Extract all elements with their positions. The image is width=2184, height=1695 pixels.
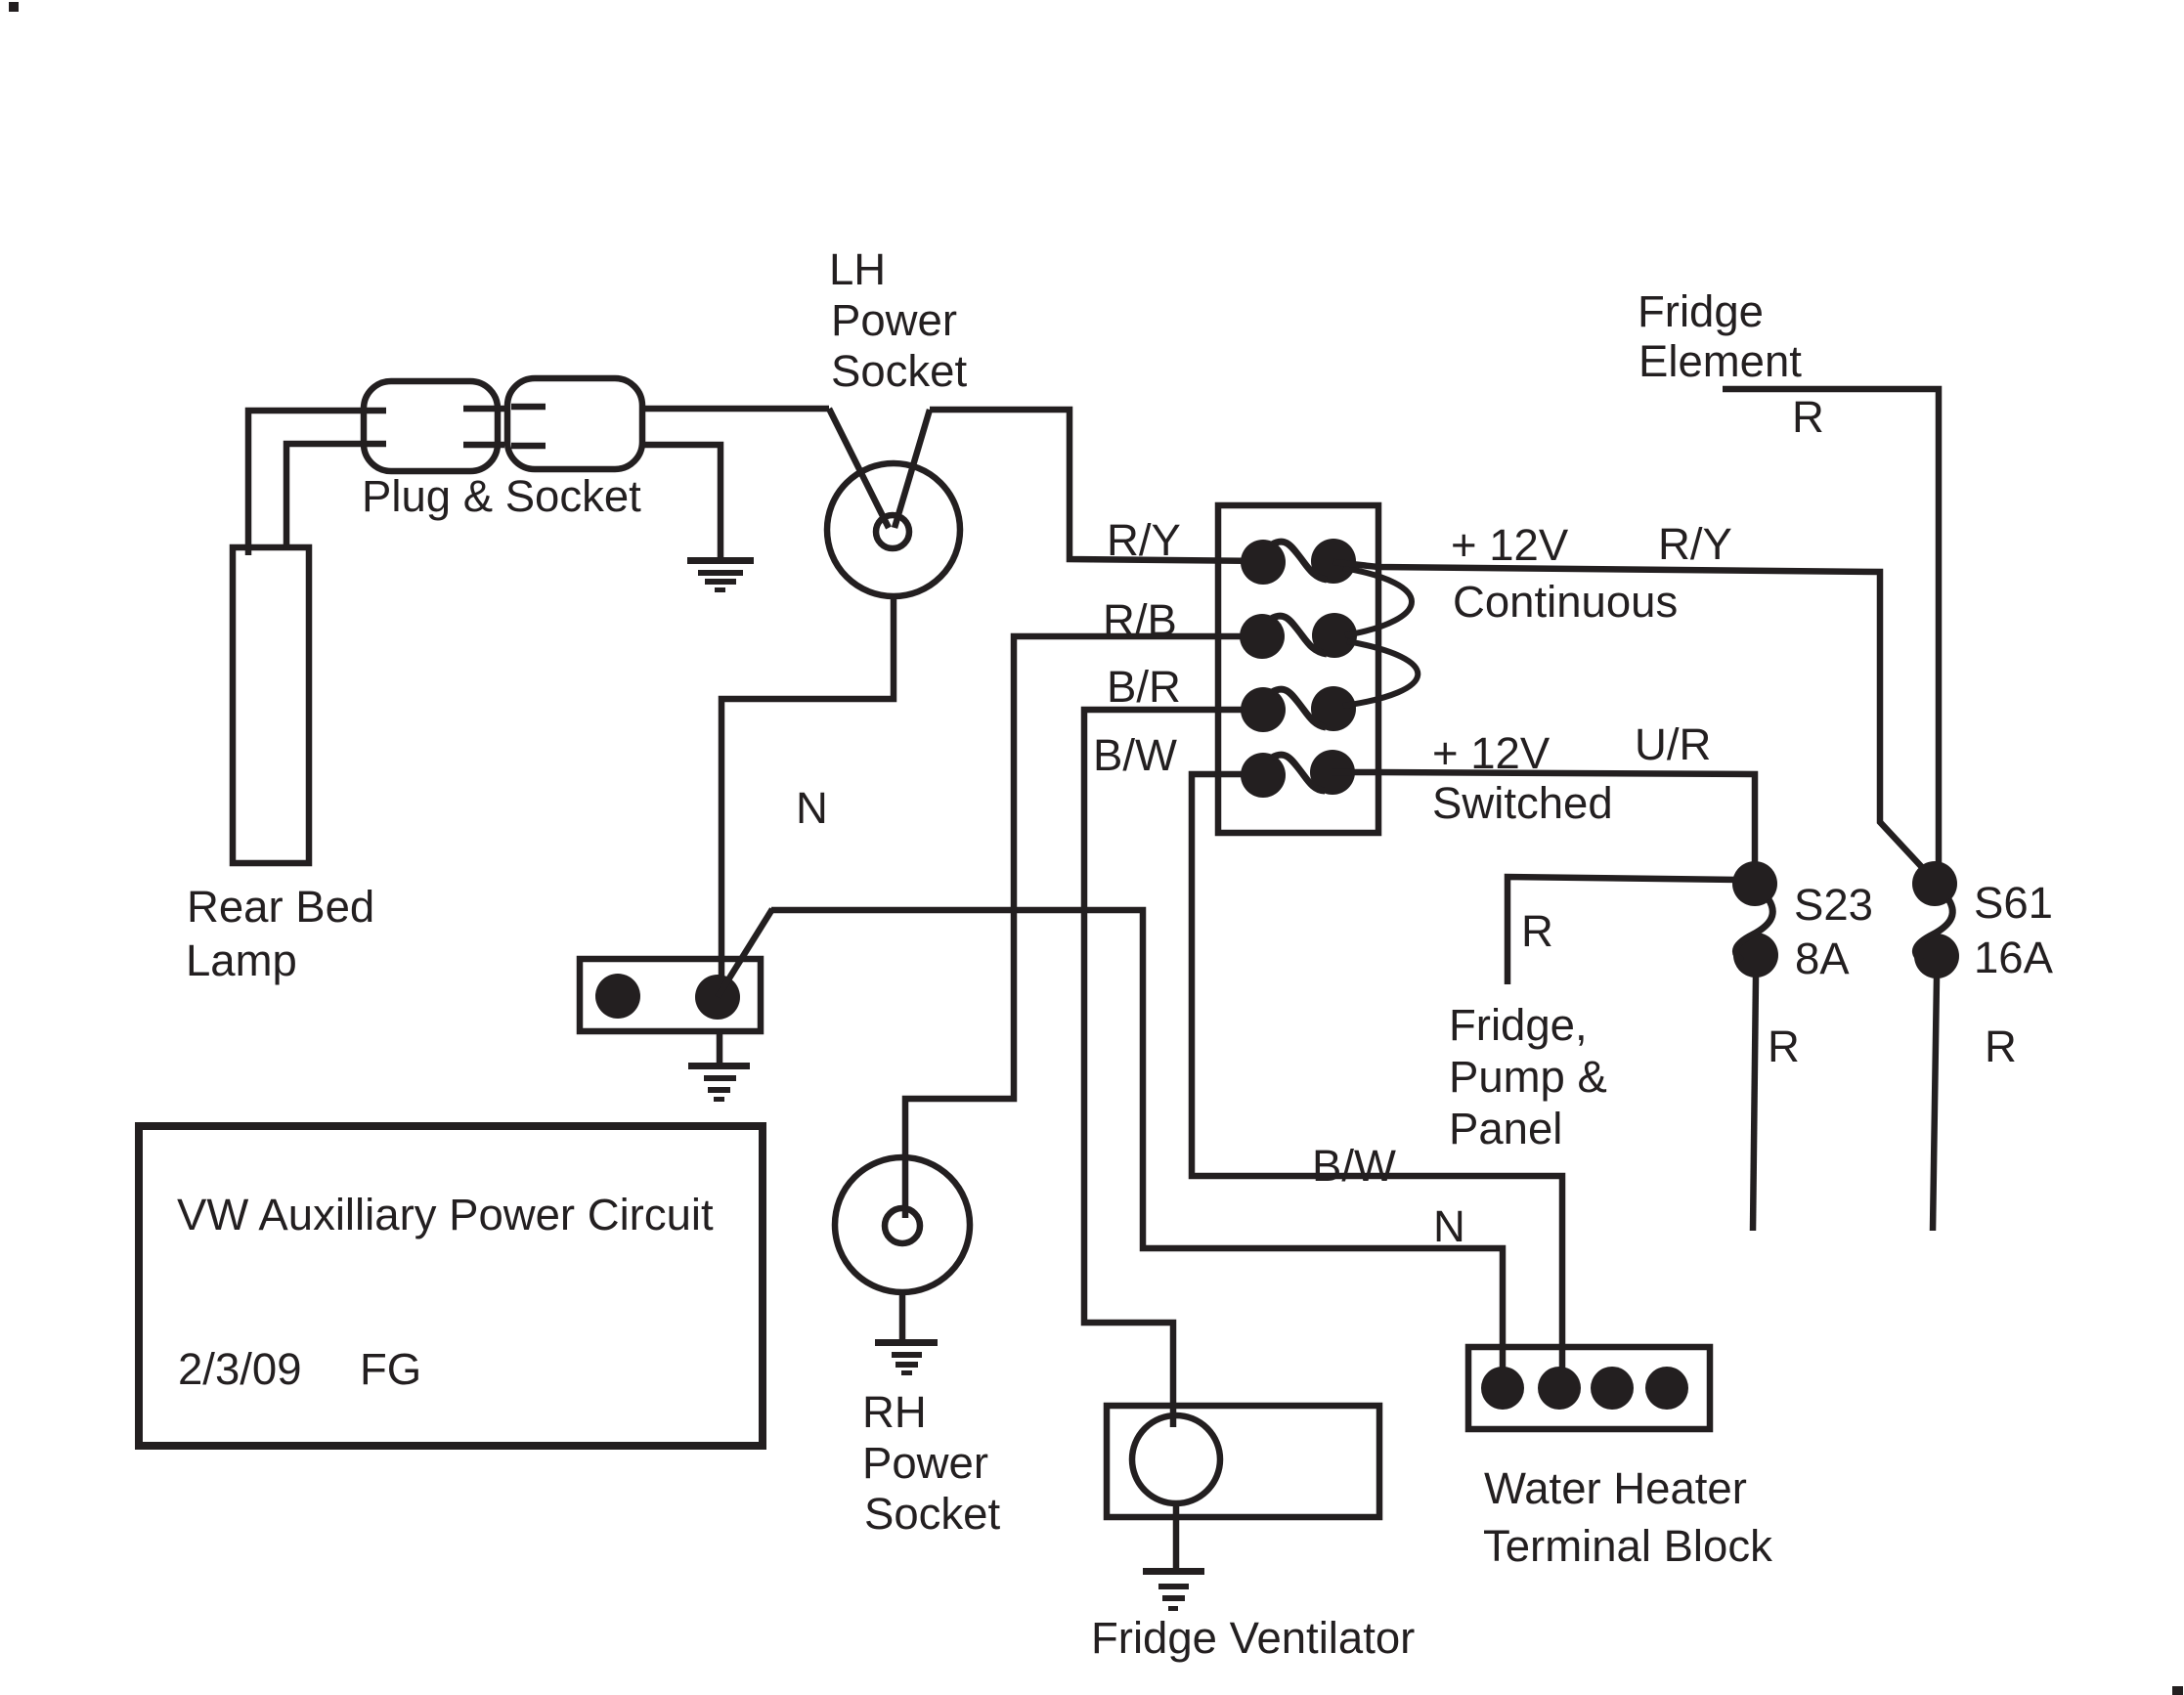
svg-text:Fridge: Fridge <box>1638 286 1764 336</box>
svg-text:Socket: Socket <box>831 346 967 396</box>
svg-text:R/B: R/B <box>1103 595 1177 645</box>
svg-text:Water Heater: Water Heater <box>1484 1463 1747 1513</box>
svg-text:R: R <box>1768 1021 1800 1071</box>
svg-text:R: R <box>1792 392 1824 442</box>
svg-text:B/W: B/W <box>1312 1141 1396 1191</box>
svg-text:B/R: B/R <box>1107 662 1181 712</box>
svg-text:RH: RH <box>862 1387 927 1437</box>
svg-text:Terminal Block: Terminal Block <box>1483 1521 1772 1571</box>
svg-text:R/Y: R/Y <box>1658 519 1732 569</box>
svg-text:16A: 16A <box>1974 933 2054 982</box>
svg-text:+ 12V: + 12V <box>1451 520 1569 570</box>
svg-text:U/R: U/R <box>1635 719 1711 769</box>
svg-text:Continuous: Continuous <box>1453 577 1678 627</box>
svg-text:N: N <box>796 783 828 833</box>
svg-text:LH: LH <box>829 244 886 294</box>
svg-text:Power: Power <box>862 1438 988 1488</box>
svg-text:8A: 8A <box>1795 934 1850 983</box>
svg-text:Fridge Ventilator: Fridge Ventilator <box>1091 1613 1415 1663</box>
svg-text:Socket: Socket <box>864 1489 1000 1539</box>
svg-text:Power: Power <box>831 295 957 345</box>
svg-text:R: R <box>1985 1021 2017 1071</box>
svg-text:Plug & Socket: Plug & Socket <box>362 471 641 521</box>
svg-text:S61: S61 <box>1974 878 2053 928</box>
svg-text:S23: S23 <box>1794 880 1873 930</box>
svg-text:N: N <box>1433 1201 1465 1251</box>
svg-text:+ 12V: + 12V <box>1432 728 1551 778</box>
svg-text:VW Auxilliary Power Circuit: VW Auxilliary Power Circuit <box>177 1190 714 1239</box>
svg-text:Switched: Switched <box>1432 778 1613 828</box>
svg-text:Element: Element <box>1638 336 1802 386</box>
svg-text:Pump &: Pump & <box>1449 1052 1607 1102</box>
svg-text:R: R <box>1521 906 1553 956</box>
svg-text:Lamp: Lamp <box>186 935 297 985</box>
svg-text:Rear Bed: Rear Bed <box>187 882 374 932</box>
svg-text:Panel: Panel <box>1449 1104 1562 1153</box>
svg-text:R/Y: R/Y <box>1107 515 1181 565</box>
svg-text:B/W: B/W <box>1093 730 1177 780</box>
svg-text:FG: FG <box>360 1344 421 1394</box>
svg-text:Fridge,: Fridge, <box>1449 1000 1588 1050</box>
svg-text:2/3/09: 2/3/09 <box>178 1344 302 1394</box>
